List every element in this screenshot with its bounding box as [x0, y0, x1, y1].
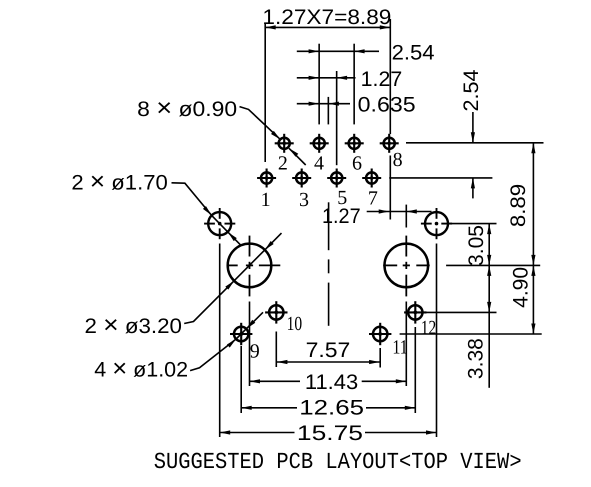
svg-text:6: 6 — [352, 153, 362, 175]
pin hole 2 — [275, 134, 294, 153]
dimension 2.54 arrows — [472, 112, 474, 143]
circle dia 3.20 right — [383, 236, 430, 297]
pin hole 6 — [345, 134, 364, 153]
diagonal through 1.70 hole — [212, 215, 228, 232]
extension line hole-9 column — [240, 346, 242, 413]
svg-text:4: 4 — [314, 153, 324, 175]
extension line pin-6 column — [353, 44, 355, 125]
svg-text:15.75: 15.75 — [297, 422, 363, 445]
svg-text:7.57: 7.57 — [306, 339, 351, 362]
hole dia 1.70 right — [421, 208, 452, 239]
dimension line 11.43 — [250, 380, 301, 382]
svg-text:2.54: 2.54 — [460, 69, 483, 111]
svg-text:2 × ø1.70: 2 × ø1.70 — [71, 168, 167, 196]
extension line center axis (short) — [327, 97, 329, 125]
svg-text:2.54: 2.54 — [392, 42, 435, 65]
pin hole 8 — [380, 134, 399, 153]
svg-text:7: 7 — [368, 187, 378, 209]
leader to hole 9 (dia 1.02) — [190, 339, 236, 371]
svg-text:SUGGESTED PCB LAYOUT<TOP VIEW>: SUGGESTED PCB LAYOUT<TOP VIEW> — [154, 449, 522, 475]
center line (dash-dot axis) — [328, 202, 330, 250]
svg-text:2 × ø3.20: 2 × ø3.20 — [85, 311, 183, 339]
leader tail toward big circle — [228, 232, 241, 245]
svg-text:0.635: 0.635 — [358, 94, 416, 117]
hole 9 — [230, 323, 252, 345]
svg-text:9: 9 — [250, 341, 260, 363]
extension line big-circle row — [446, 264, 540, 266]
hole dia 1.70 left — [204, 208, 235, 239]
dimension line 15.75 — [220, 432, 295, 434]
leader to pin 2 (dia 0.90) — [240, 107, 281, 140]
svg-text:12: 12 — [421, 317, 437, 339]
extension line hole-10 column — [275, 332, 277, 368]
extension line pin-8 column — [389, 19, 391, 134]
svg-text:8.89: 8.89 — [507, 184, 530, 227]
svg-text:1.27X7=8.89: 1.27X7=8.89 — [262, 6, 391, 29]
svg-text:1.27: 1.27 — [322, 205, 361, 228]
svg-text:8 × ø0.90: 8 × ø0.90 — [137, 94, 237, 122]
leader to hole dia 1.70 — [172, 183, 212, 216]
dimension line 3.05 — [488, 224, 490, 266]
pin hole 3 — [292, 169, 311, 188]
pin hole 7 — [362, 169, 381, 188]
dimension line 0.635 — [297, 103, 350, 105]
dimension line 8.89 — [532, 143, 534, 266]
extension line big-circle right column (upper) — [405, 205, 407, 228]
dimension line 2.54 — [297, 50, 354, 52]
dimension line 1.27X7=8.89 — [265, 26, 390, 28]
extension line 1.70-left column — [219, 244, 221, 438]
extension line big-circle-left column — [249, 302, 251, 387]
hole 12 — [404, 301, 426, 323]
extension line hole-12 column — [414, 327, 416, 413]
hole 11 — [369, 323, 391, 345]
diagonal through hole 9 — [236, 329, 246, 339]
svg-text:12.65: 12.65 — [299, 397, 364, 420]
leader to big circle (dia 3.20) — [184, 281, 234, 324]
svg-text:1: 1 — [261, 189, 271, 211]
dimension line 12.65 — [241, 407, 297, 409]
leader tail below pin 2 — [289, 148, 306, 165]
extension line hole-12 row — [424, 311, 497, 313]
svg-text:10: 10 — [287, 313, 303, 335]
svg-text:11.43: 11.43 — [305, 371, 358, 394]
circle dia 3.20 left — [227, 236, 281, 297]
leader tail above big circle — [265, 233, 282, 250]
dimension line 7.57 — [277, 361, 380, 363]
hole 10 — [265, 301, 287, 323]
dimension line 1.27 — [297, 77, 356, 79]
svg-text:3.38: 3.38 — [464, 338, 487, 379]
dimension line 3.38 with tail — [488, 265, 490, 387]
pin hole 4 — [310, 134, 329, 153]
svg-text:2: 2 — [278, 153, 288, 175]
svg-text:3: 3 — [299, 189, 309, 211]
svg-text:4 × ø1.02: 4 × ø1.02 — [94, 354, 188, 382]
dimension line 4.90 — [532, 265, 534, 334]
extension line 1.70-right column — [436, 244, 438, 438]
extension line big-circle-right column (lower) — [405, 302, 407, 387]
extension line pin-5 column — [336, 71, 338, 165]
pin hole 1 — [257, 169, 276, 188]
dimension line 1.27 lower — [367, 211, 432, 213]
extension line pin-7 row — [389, 177, 492, 179]
extension line pin-1 column — [264, 23, 266, 162]
extension line 1.70-hole row — [448, 223, 497, 225]
svg-text:8: 8 — [393, 149, 403, 171]
extension line hole-11 row — [400, 333, 542, 335]
svg-text:1.27: 1.27 — [361, 68, 403, 91]
extension line pin-4 column — [318, 44, 320, 125]
leader tail toward hole 10 — [246, 312, 263, 328]
extension line hole-11 column — [379, 348, 381, 368]
svg-text:4.90: 4.90 — [509, 267, 532, 308]
diagonal through big circle — [234, 250, 265, 281]
extension line pin-8 row — [406, 142, 544, 144]
pin hole 5 — [327, 169, 346, 188]
svg-text:3.05: 3.05 — [465, 225, 488, 266]
